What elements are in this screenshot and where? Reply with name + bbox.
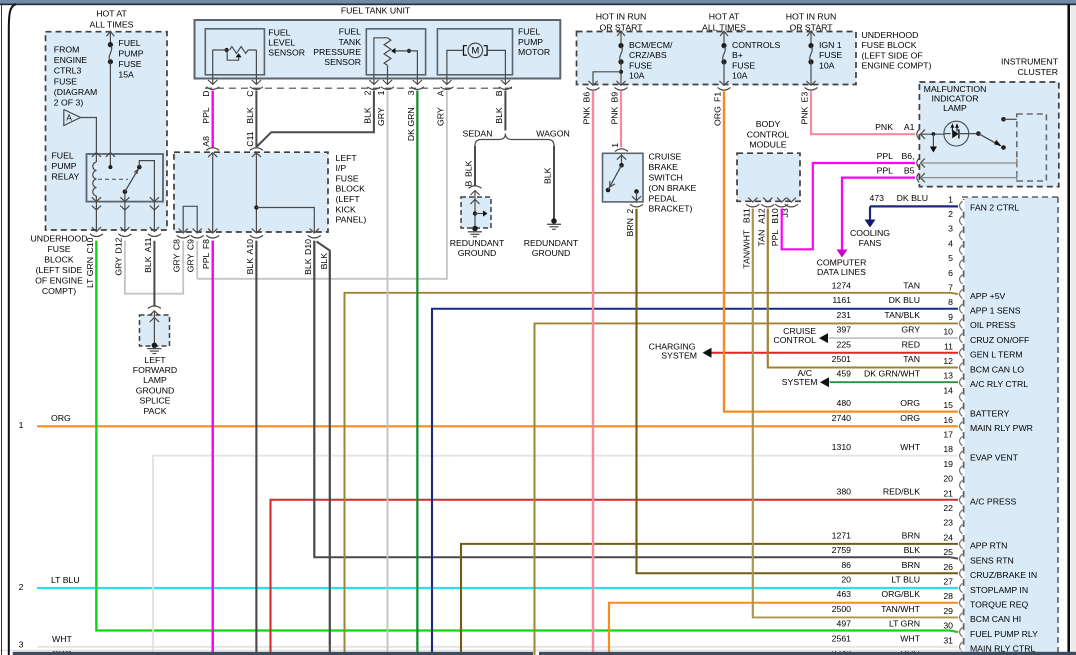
svg-text:28: 28 [943, 591, 953, 601]
svg-text:7: 7 [948, 283, 953, 293]
wire PPL D to A8 (left I/P fuse block) [211, 91, 213, 148]
svg-text:DK GRN: DK GRN [406, 107, 416, 141]
wire TAN A12 to ECM pin12 (bcm can lo) [768, 209, 958, 368]
svg-text:MODULE: MODULE [749, 140, 786, 150]
svg-text:BLK: BLK [494, 107, 504, 124]
svg-text:CTRL3: CTRL3 [54, 66, 82, 76]
I/P block bottom exits C8 C9 F8 A10 D10 [179, 229, 188, 233]
svg-text:CRUZ ON/OFF: CRUZ ON/OFF [970, 335, 1029, 345]
svg-text:PPL: PPL [770, 230, 780, 247]
svg-text:CONTROL: CONTROL [774, 335, 817, 345]
wire 463 ORG/BLK pin28 (torque req) [609, 603, 958, 655]
svg-text:PNK: PNK [610, 106, 620, 124]
svg-text:E3: E3 [800, 92, 810, 103]
svg-text:12: 12 [943, 356, 953, 366]
svg-text:A1: A1 [904, 122, 915, 132]
relay fuse-pin stub [108, 165, 112, 169]
svg-text:14: 14 [943, 385, 953, 395]
svg-text:10: 10 [943, 327, 953, 337]
symbol A (triangle, from engine ctrl3 fuse) [64, 110, 81, 126]
svg-text:397: 397 [837, 325, 852, 335]
pressure sensor internals (potentiometer) [384, 38, 391, 66]
svg-text:DK BLU: DK BLU [897, 193, 928, 203]
svg-text:TAN: TAN [903, 281, 920, 291]
svg-text:STOPLAMP IN: STOPLAMP IN [970, 585, 1028, 595]
svg-text:BLK: BLK [543, 167, 553, 184]
svg-text:KICK: KICK [336, 204, 356, 214]
svg-text:FUEL TANK UNIT: FUEL TANK UNIT [341, 5, 411, 15]
wire GRY C9 to motor A [196, 241, 198, 279]
svg-text:473: 473 [870, 193, 885, 203]
wire BLK C/C11 to I/P block [255, 91, 257, 148]
svg-text:2561: 2561 [832, 633, 851, 643]
svg-text:FUSE: FUSE [629, 60, 652, 70]
svg-text:15A: 15A [118, 70, 134, 80]
MIL down arrow [932, 132, 936, 136]
relay switch [123, 189, 128, 194]
relay bottom pin chevrons [92, 197, 101, 201]
svg-text:LEFT: LEFT [144, 355, 166, 365]
svg-text:B6: B6 [582, 92, 592, 103]
svg-text:27: 27 [943, 577, 953, 587]
wire 1274 TAN pin7 (app +5v) [345, 293, 959, 655]
svg-text:PUMP: PUMP [118, 48, 143, 58]
underhood fuse block right (dashed box) [577, 32, 857, 85]
svg-text:GRY: GRY [186, 253, 196, 272]
svg-text:UNDERHOOD: UNDERHOOD [862, 30, 919, 40]
svg-text:FUEL: FUEL [268, 27, 290, 37]
svg-text:20: 20 [841, 575, 851, 585]
svg-text:PPL: PPL [201, 107, 211, 124]
svg-text:BRAKE: BRAKE [649, 162, 679, 172]
svg-text:INDICATOR: INDICATOR [932, 94, 979, 104]
svg-text:(LEFT SIDE: (LEFT SIDE [36, 265, 83, 275]
svg-text:C11: C11 [245, 131, 255, 146]
svg-text:OF ENGINE: OF ENGINE [35, 275, 83, 285]
svg-text:C8: C8 [172, 239, 182, 250]
wire BLK B (motor) to sedan/wagon brace [504, 91, 506, 131]
svg-text:FUEL: FUEL [339, 27, 361, 37]
svg-text:A: A [66, 113, 72, 122]
MIL lamp circuit [921, 133, 945, 135]
cluster pins B6 B5 internal [917, 158, 919, 168]
svg-text:SENSOR: SENSOR [268, 48, 305, 58]
wire 20 LT BLU pin27 (stoplamp in) from left margin 2 [37, 587, 958, 589]
wire TAN/WHT B11 to ECM pin29 (bcm can hi) [753, 209, 958, 618]
malfunction indicator lamp (dashed box) [919, 82, 1058, 187]
svg-text:SWITCH: SWITCH [649, 173, 683, 183]
relay coil [93, 162, 97, 196]
svg-text:UNDERHOOD: UNDERHOOD [31, 233, 88, 243]
svg-text:3: 3 [19, 639, 24, 649]
svg-text:LT BLU: LT BLU [891, 575, 920, 585]
svg-text:B11: B11 [741, 208, 751, 223]
svg-text:REDUNDANT: REDUNDANT [450, 238, 505, 248]
svg-text:ENGINE COMPT): ENGINE COMPT) [862, 61, 932, 71]
svg-text:BCM CAN LO: BCM CAN LO [970, 364, 1024, 374]
svg-text:GROUND: GROUND [458, 248, 497, 258]
svg-text:BRN: BRN [625, 218, 635, 236]
svg-text:TORQUE REQ: TORQUE REQ [970, 600, 1028, 610]
svg-text:17: 17 [943, 430, 953, 440]
svg-text:FUEL: FUEL [518, 27, 540, 37]
svg-text:19: 19 [943, 459, 953, 469]
svg-text:SYSTEM: SYSTEM [782, 377, 818, 387]
svg-text:16: 16 [943, 415, 953, 425]
svg-text:231: 231 [837, 310, 852, 320]
svg-text:2: 2 [362, 90, 372, 95]
svg-text:EVAP VENT: EVAP VENT [970, 453, 1019, 463]
svg-text:TAN/WHT: TAN/WHT [741, 229, 751, 269]
svg-text:PPL: PPL [877, 151, 894, 161]
svg-text:WAGON: WAGON [536, 128, 569, 138]
svg-text:CONTROL: CONTROL [747, 129, 790, 139]
wire 473 DK BLU to cooling fans [870, 205, 958, 207]
cruise brake switch (box) [603, 153, 644, 202]
svg-text:5: 5 [948, 253, 953, 263]
svg-text:480: 480 [837, 398, 852, 408]
svg-text:TAN/BLK: TAN/BLK [884, 310, 920, 320]
svg-text:SENS RTN: SENS RTN [970, 555, 1014, 565]
svg-text:DK GRN/WHT: DK GRN/WHT [864, 369, 921, 379]
svg-text:1271: 1271 [832, 530, 851, 540]
svg-text:225: 225 [837, 339, 852, 349]
svg-text:A/C RLY CTRL: A/C RLY CTRL [970, 379, 1028, 389]
svg-text:HOT AT: HOT AT [709, 11, 740, 21]
wire PPL B10 to cluster B6 [782, 163, 915, 249]
svg-text:6: 6 [948, 268, 953, 278]
I/P block internal wires [212, 153, 214, 232]
svg-text:3: 3 [948, 224, 953, 234]
top bar [0, 0, 1076, 3]
svg-text:18: 18 [943, 444, 953, 454]
svg-text:ORG/BLK: ORG/BLK [881, 589, 920, 599]
svg-text:IGN 1: IGN 1 [819, 40, 842, 50]
svg-text:RELAY: RELAY [52, 171, 80, 181]
fuel tank unit (box) [195, 20, 561, 79]
svg-text:8: 8 [948, 297, 953, 307]
wire 1161 DK BLU pin8 (app 1 sens) [432, 309, 958, 655]
arrow to computer data lines [837, 250, 848, 258]
svg-text:20: 20 [943, 474, 953, 484]
svg-text:OIL PRESS: OIL PRESS [970, 320, 1016, 330]
svg-text:(LEFT SIDE OF: (LEFT SIDE OF [862, 50, 923, 60]
svg-text:BATTERY: BATTERY [970, 408, 1009, 418]
svg-text:1274: 1274 [832, 281, 851, 291]
svg-text:TAN: TAN [903, 354, 920, 364]
underhood fuse block left (dashed box) [46, 32, 168, 230]
svg-text:10A: 10A [819, 60, 835, 70]
svg-text:4: 4 [948, 238, 953, 248]
fuel tank pressure sensor (box) [366, 29, 425, 75]
svg-text:PNK: PNK [582, 106, 592, 124]
svg-text:BCM/ECM/: BCM/ECM/ [629, 40, 673, 50]
relay internal dashed link [98, 178, 128, 180]
svg-text:MALFUNCTION: MALFUNCTION [924, 84, 987, 94]
svg-text:BRACKET): BRACKET) [649, 204, 693, 214]
sedan ground symbol [472, 226, 478, 232]
wire BLK 2 (pressure) joins C11 [257, 91, 374, 147]
fuel pump fuse F (15A) [107, 32, 115, 37]
svg-text:1310: 1310 [832, 442, 851, 452]
svg-text:FUEL: FUEL [52, 150, 74, 160]
cruise switch exit 2 / BRN [630, 204, 643, 207]
svg-text:BLK: BLK [904, 545, 921, 555]
wire 231 TAN/BLK pin9 (oil press) [535, 323, 959, 655]
sedan redundant ground (splice box) [469, 186, 482, 189]
fuse box bottom exits B6 B9 F1 E3 [588, 81, 597, 85]
wire 2740 ORG pin16 (main rly pwr) from left margin 1 [37, 425, 958, 427]
svg-text:F8: F8 [201, 239, 211, 249]
svg-text:463: 463 [837, 589, 852, 599]
left I/P fuse block (dashed box) [174, 152, 328, 232]
svg-text:22: 22 [943, 503, 953, 513]
svg-text:PACK: PACK [143, 406, 166, 416]
svg-text:BLK: BLK [319, 253, 329, 270]
svg-text:LEVEL: LEVEL [268, 38, 295, 48]
svg-text:ORG: ORG [713, 106, 723, 126]
svg-text:2: 2 [625, 209, 635, 214]
wire 225 RED pin11 (gen l term) + charging system arrow [712, 352, 959, 354]
svg-text:LAMP: LAMP [143, 375, 167, 385]
wire BLK sedan branch to redundant ground connector B [474, 146, 476, 187]
wire 2561 WHT pin31 (main rly ctrl) from left margin 3 [37, 646, 958, 648]
svg-text:GROUND: GROUND [136, 385, 175, 395]
page artifact line [0, 649, 962, 651]
svg-text:HOT IN RUN: HOT IN RUN [786, 11, 837, 21]
svg-text:CONTROLS: CONTROLS [732, 40, 780, 50]
svg-text:APP +5V: APP +5V [970, 291, 1006, 301]
svg-text:WHT: WHT [52, 634, 72, 644]
wire GRY A (motor) to C9 loop [197, 91, 447, 279]
svg-text:FUSE: FUSE [118, 59, 141, 69]
svg-text:FUSE BLOCK: FUSE BLOCK [862, 40, 917, 50]
svg-text:COOLING: COOLING [850, 228, 890, 238]
wire PPL B5 from cluster to computer data lines [842, 178, 915, 250]
wire GRY D12 loop to C8 [125, 241, 183, 294]
svg-text:PNK: PNK [875, 122, 893, 132]
svg-text:86: 86 [841, 560, 851, 570]
svg-text:COMPUTER: COMPUTER [817, 257, 867, 267]
svg-text:TANK: TANK [338, 37, 361, 47]
svg-text:1: 1 [948, 194, 953, 204]
fuse BCM/ECM/CRZ/ABS 10A [617, 31, 625, 36]
svg-text:B9: B9 [610, 92, 620, 103]
svg-text:HOT IN RUN: HOT IN RUN [596, 11, 647, 21]
svg-text:FROM: FROM [54, 45, 80, 55]
svg-text:D12: D12 [113, 237, 123, 253]
svg-text:WHT: WHT [900, 442, 920, 452]
svg-text:APP RTN: APP RTN [970, 541, 1007, 551]
svg-text:LT GRN: LT GRN [85, 257, 95, 288]
svg-text:B6,: B6, [901, 151, 914, 161]
svg-text:I/P: I/P [336, 163, 347, 173]
svg-text:D: D [201, 91, 211, 97]
svg-text:B5: B5 [904, 166, 915, 176]
wire BLK A11 to splice pack [153, 241, 155, 307]
I/P block top entries A8 C11 [206, 148, 219, 151]
left forward lamp ground splice pack [148, 306, 161, 309]
svg-text:CRUZ/BRAKE IN: CRUZ/BRAKE IN [970, 570, 1037, 580]
svg-text:A12: A12 [756, 208, 766, 224]
BCM exits B11 A12 B10 J3 [748, 198, 757, 202]
svg-text:SPLICE: SPLICE [140, 396, 171, 406]
branch to B6 [619, 70, 623, 74]
verticals redrawn on top [387, 91, 389, 655]
svg-text:BLOCK: BLOCK [336, 184, 366, 194]
svg-text:B: B [494, 90, 504, 96]
wire ORG F1 to ECM pin15 (battery) [724, 91, 958, 411]
wire PNK B6 down off-page [592, 91, 594, 655]
svg-text:C: C [245, 91, 255, 97]
svg-text:BLK: BLK [245, 107, 255, 124]
svg-text:380: 380 [837, 486, 852, 496]
svg-text:GRY: GRY [172, 253, 182, 272]
svg-text:PRESSURE: PRESSURE [313, 47, 361, 57]
svg-text:(ON BRAKE: (ON BRAKE [649, 183, 697, 193]
svg-text:26: 26 [943, 562, 953, 572]
svg-text:RED/BLK: RED/BLK [883, 486, 920, 496]
svg-text:30: 30 [943, 621, 953, 631]
svg-text:1: 1 [19, 420, 24, 430]
svg-text:D10: D10 [303, 239, 313, 255]
svg-text:BLK: BLK [362, 107, 372, 124]
engine control module connector (dashed box) [965, 197, 1059, 655]
svg-text:A10: A10 [245, 239, 255, 255]
wire BRN to ECM pin26 (cruz/brake in) [637, 209, 959, 574]
relay pin entries top [92, 153, 101, 157]
wire LT GRN C10 to ECM pin30 (fuel pump rly) [96, 241, 958, 632]
svg-text:FUSE: FUSE [336, 173, 359, 183]
svg-text:15: 15 [943, 400, 953, 410]
svg-text:DATA LINES: DATA LINES [817, 267, 866, 277]
svg-text:CRUISE: CRUISE [649, 152, 682, 162]
bottom bar [13, 652, 533, 655]
ECM pin arcs and numbers [960, 201, 963, 210]
svg-text:PPL: PPL [877, 166, 894, 176]
svg-text:LAMP: LAMP [943, 103, 967, 113]
svg-text:23: 23 [943, 518, 953, 528]
wire 1271 BRN pin24 (app rtn) [461, 544, 958, 655]
svg-text:FUSE: FUSE [819, 50, 842, 60]
svg-text:GROUND: GROUND [532, 248, 571, 258]
svg-text:B: B [464, 181, 474, 187]
svg-text:PUMP: PUMP [518, 37, 543, 47]
svg-text:29: 29 [943, 606, 953, 616]
fuel pump relay K (box) [87, 154, 164, 202]
wire 380 RED/BLK pin21 (a/c press) [271, 500, 959, 655]
svg-text:24: 24 [943, 532, 953, 542]
svg-text:BLK: BLK [143, 256, 153, 273]
fuel pump motor (box) [437, 29, 512, 75]
motor M symbol [468, 43, 483, 58]
svg-text:PPL: PPL [201, 252, 211, 269]
svg-text:MAIN RLY PWR: MAIN RLY PWR [970, 423, 1033, 433]
svg-text:APP 1 SENS: APP 1 SENS [970, 306, 1021, 316]
wire 397 GRY pin10 (cruz on/off) + cruise control arrow [829, 337, 959, 339]
svg-text:2740: 2740 [832, 413, 851, 423]
svg-text:GRY: GRY [113, 257, 123, 276]
svg-text:BLK: BLK [245, 258, 255, 275]
svg-text:B+: B+ [732, 50, 743, 60]
wire DK GRN 3 down off-page [416, 91, 418, 655]
svg-text:CLUSTER: CLUSTER [1017, 67, 1058, 77]
cruise switch arm [606, 188, 611, 193]
svg-text:BLOCK: BLOCK [44, 254, 74, 264]
underhood fuse block bottom exits C10 D12 A11 [92, 227, 101, 231]
svg-text:LEFT: LEFT [336, 153, 358, 163]
svg-text:HOT AT: HOT AT [96, 8, 127, 18]
svg-text:LT BLU: LT BLU [51, 575, 80, 585]
svg-text:FUSE: FUSE [54, 76, 77, 86]
svg-text:MOTOR: MOTOR [518, 47, 550, 57]
svg-text:21: 21 [943, 488, 953, 498]
svg-text:11: 11 [944, 341, 953, 351]
svg-text:TAN: TAN [756, 230, 766, 247]
svg-text:13: 13 [943, 371, 953, 381]
svg-text:SEDAN: SEDAN [463, 128, 493, 138]
svg-text:C9: C9 [186, 239, 196, 250]
svg-text:ORG: ORG [51, 413, 71, 423]
sedan/wagon brace [475, 134, 554, 147]
svg-text:REDUNDANT: REDUNDANT [524, 238, 579, 248]
svg-text:2501: 2501 [832, 354, 851, 364]
svg-text:RED: RED [902, 339, 920, 349]
svg-text:ALL TIMES: ALL TIMES [90, 19, 134, 29]
svg-text:M: M [471, 45, 479, 56]
svg-text:PUMP: PUMP [52, 161, 77, 171]
svg-text:COMPT): COMPT) [42, 286, 76, 296]
svg-text:F1: F1 [713, 92, 723, 102]
svg-text:FAN 2 CTRL: FAN 2 CTRL [970, 203, 1019, 213]
svg-text:BODY: BODY [756, 119, 781, 129]
svg-text:1: 1 [376, 90, 386, 95]
fuel level sensor (box) [205, 29, 264, 75]
svg-text:10A: 10A [629, 71, 645, 81]
svg-text:9: 9 [948, 312, 953, 322]
svg-text:BRN: BRN [902, 530, 920, 540]
wire PNK B9 to cruise brake switch [620, 91, 622, 147]
svg-text:2 OF 3): 2 OF 3) [54, 98, 84, 108]
svg-text:PNK: PNK [800, 106, 810, 124]
svg-text:1: 1 [610, 143, 620, 148]
svg-text:31: 31 [943, 635, 953, 645]
wire PNK E3 to instrument cluster A1 [811, 91, 915, 134]
svg-text:25: 25 [943, 547, 953, 557]
svg-text:2: 2 [948, 209, 953, 219]
svg-text:FUSE: FUSE [47, 244, 70, 254]
svg-text:A11: A11 [143, 237, 153, 252]
svg-text:2: 2 [19, 582, 24, 592]
body control module (dashed box) [737, 153, 800, 201]
svg-text:CRZ/ABS: CRZ/ABS [629, 50, 667, 60]
svg-text:497: 497 [837, 619, 852, 629]
svg-text:INSTRUMENT: INSTRUMENT [1001, 56, 1059, 66]
svg-text:FORWARD: FORWARD [133, 365, 177, 375]
wire BLK D10 to ECM pin25 (sens rtn) [314, 241, 958, 559]
svg-text:A: A [435, 90, 445, 96]
fuel level sensor internals (rheostat) [225, 48, 229, 52]
wire PPL F8 down off-page [212, 241, 214, 655]
svg-text:(DIAGRAM: (DIAGRAM [54, 87, 97, 97]
wire BLK wagon branch to redundant ground [553, 146, 555, 219]
wire BLK A10 down off-page [255, 241, 257, 655]
svg-text:BLK: BLK [464, 160, 474, 177]
svg-text:WHT: WHT [900, 633, 920, 643]
svg-text:BCM CAN HI: BCM CAN HI [970, 614, 1021, 624]
svg-text:DK BLU: DK BLU [889, 295, 920, 305]
svg-text:1161: 1161 [832, 295, 851, 305]
